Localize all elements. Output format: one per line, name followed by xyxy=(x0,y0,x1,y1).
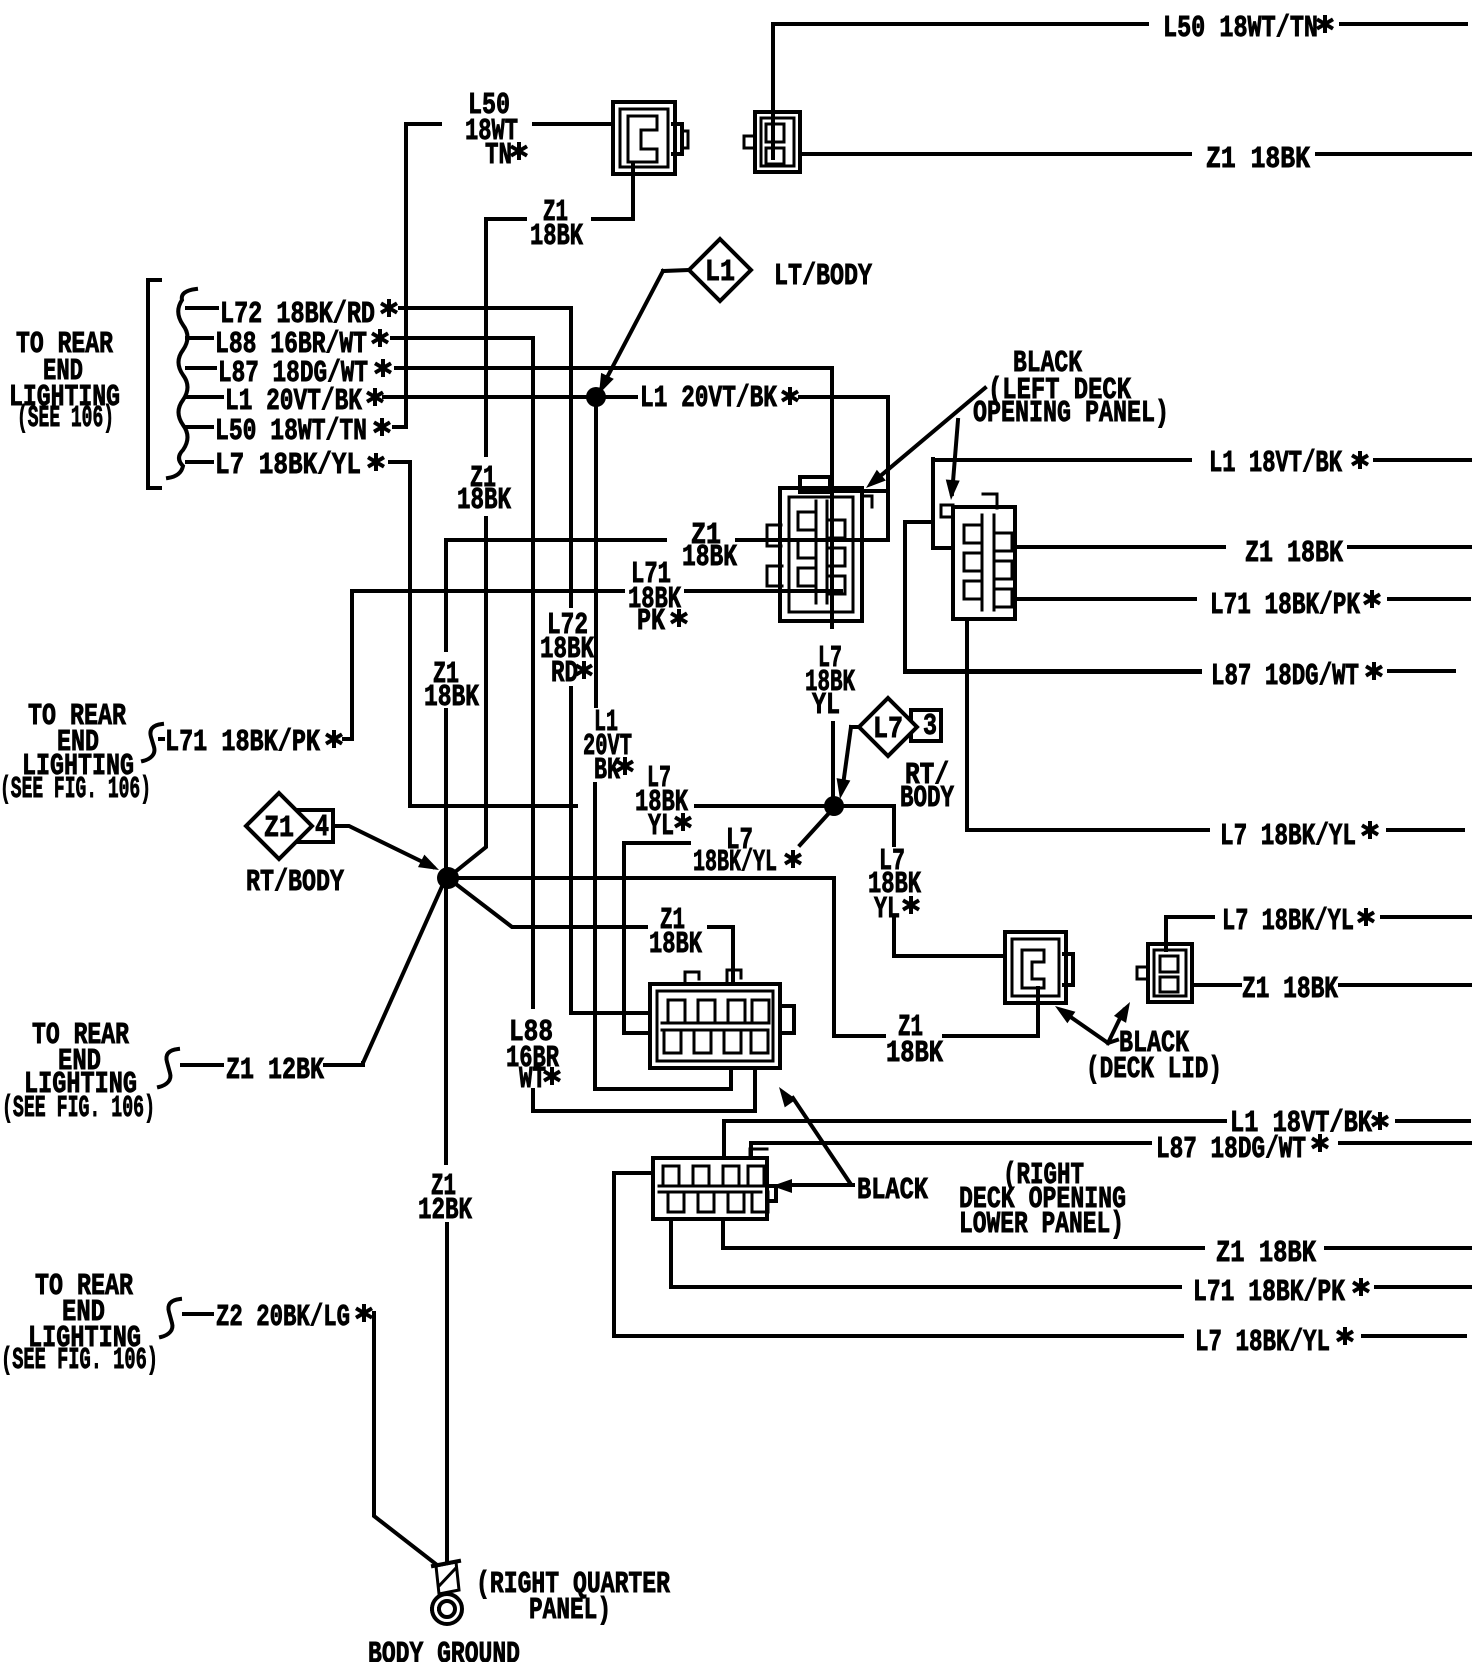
svg-text:Z1 18BK: Z1 18BK xyxy=(1245,536,1343,571)
svg-text:Z1 18BK: Z1 18BK xyxy=(1206,142,1310,177)
svg-text:YL: YL xyxy=(812,688,840,723)
svg-text:18BK: 18BK xyxy=(886,1036,943,1071)
svg-text:L71 18BK/PK: L71 18BK/PK xyxy=(1193,1275,1345,1310)
svg-text:WT: WT xyxy=(519,1062,546,1097)
svg-text:L7 18BK/YL: L7 18BK/YL xyxy=(1220,819,1356,854)
svg-text:L7 18BK/YL: L7 18BK/YL xyxy=(1195,1325,1330,1360)
svg-text:TN: TN xyxy=(485,138,512,173)
svg-text:L1 18VT/BK: L1 18VT/BK xyxy=(1209,446,1342,481)
svg-text:L7: L7 xyxy=(873,712,903,747)
svg-text:YL: YL xyxy=(648,809,674,844)
svg-text:L71 18BK/PK: L71 18BK/PK xyxy=(1210,588,1360,623)
svg-text:PANEL): PANEL) xyxy=(529,1593,611,1628)
svg-text:(DECK LID): (DECK LID) xyxy=(1086,1052,1222,1087)
svg-text:18BK/YL: 18BK/YL xyxy=(693,845,777,880)
svg-text:PK: PK xyxy=(637,604,665,639)
svg-text:4: 4 xyxy=(315,810,329,845)
svg-text:L50 18WT/TN: L50 18WT/TN xyxy=(1163,11,1318,46)
svg-text:RD: RD xyxy=(551,656,578,691)
svg-text:(SEE FIG. 106): (SEE FIG. 106) xyxy=(2,1091,155,1126)
svg-text:12BK: 12BK xyxy=(418,1193,472,1228)
svg-text:L7 18BK/YL: L7 18BK/YL xyxy=(1222,904,1354,939)
svg-text:18BK: 18BK xyxy=(530,219,583,254)
svg-text:LT/BODY: LT/BODY xyxy=(774,259,872,294)
svg-text:18BK: 18BK xyxy=(649,927,702,962)
svg-text:Z1 12BK: Z1 12BK xyxy=(226,1053,324,1088)
svg-text:(SEE FIG. 106): (SEE FIG. 106) xyxy=(0,772,151,807)
svg-text:LOWER PANEL): LOWER PANEL) xyxy=(959,1207,1124,1242)
svg-text:Z2 20BK/LG: Z2 20BK/LG xyxy=(216,1300,350,1335)
svg-text:18BK: 18BK xyxy=(457,483,511,518)
svg-text:18BK: 18BK xyxy=(682,540,737,575)
svg-text:Z1: Z1 xyxy=(264,811,294,846)
svg-text:BODY: BODY xyxy=(900,781,954,816)
svg-text:BK: BK xyxy=(594,753,620,788)
svg-text:18BK: 18BK xyxy=(424,680,479,715)
svg-text:L50 18WT/TN: L50 18WT/TN xyxy=(215,414,367,449)
svg-text:BODY GROUND: BODY GROUND xyxy=(368,1637,520,1662)
svg-text:Z1 18BK: Z1 18BK xyxy=(1216,1236,1316,1271)
svg-text:RT/BODY: RT/BODY xyxy=(246,865,344,900)
svg-text:(SEE 106): (SEE 106) xyxy=(17,401,114,436)
svg-text:Z1 18BK: Z1 18BK xyxy=(1242,972,1338,1007)
svg-text:L87 18DG/WT: L87 18DG/WT xyxy=(1211,659,1359,694)
svg-text:L71 18BK/PK: L71 18BK/PK xyxy=(165,725,320,760)
svg-text:L87 18DG/WT: L87 18DG/WT xyxy=(1156,1132,1306,1167)
svg-text:3: 3 xyxy=(923,709,937,744)
svg-text:L1 20VT/BK: L1 20VT/BK xyxy=(640,381,777,416)
svg-text:YL: YL xyxy=(874,892,900,927)
svg-text:L7 18BK/YL: L7 18BK/YL xyxy=(215,448,361,483)
svg-text:OPENING PANEL): OPENING PANEL) xyxy=(973,396,1169,431)
svg-text:BLACK: BLACK xyxy=(857,1173,928,1208)
svg-text:(SEE FIG. 106): (SEE FIG. 106) xyxy=(1,1343,158,1378)
svg-text:L1: L1 xyxy=(705,255,735,290)
